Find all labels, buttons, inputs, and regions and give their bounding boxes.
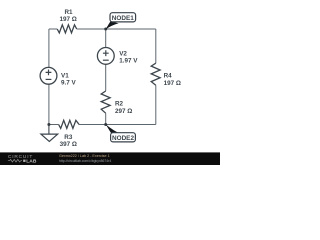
voltage source V1 — [40, 67, 76, 86]
node junction dot bottom-mid — [104, 123, 107, 126]
svg-text:NODE1: NODE1 — [112, 15, 134, 22]
wire: bottom rail from R3 to right vertical — [79, 124, 156, 126]
ground — [41, 125, 58, 142]
resistor R4 — [151, 63, 160, 85]
wire: V2/R2 branch vertical — [105, 29, 107, 91]
svg-text:V2: V2 — [119, 50, 127, 57]
svg-text:297 Ω: 297 Ω — [115, 108, 132, 115]
node junction dot bottom-left — [47, 123, 50, 126]
wire: bottom rail short lead junction to R3 — [49, 124, 59, 126]
svg-text:1.97 V: 1.97 V — [119, 58, 138, 65]
svg-text:197 Ω: 197 Ω — [60, 16, 77, 23]
svg-text:197 Ω: 197 Ω — [164, 80, 181, 87]
resistor R3 — [59, 120, 80, 128]
node NODE2 label — [111, 133, 136, 143]
wire: R2 bottom lead — [105, 113, 107, 124]
node NODE2 flag — [106, 124, 120, 133]
svg-text:LAB: LAB — [26, 158, 37, 164]
svg-text:R2: R2 — [115, 100, 124, 107]
svg-text:R3: R3 — [64, 134, 73, 141]
wire: right vertical upper lead to R4 — [155, 29, 157, 63]
svg-text:V1: V1 — [61, 72, 69, 79]
svg-text:http://circuitlab.com/c/bgkyx8: http://circuitlab.com/c/bgkyx8674r4 — [59, 159, 111, 163]
node NODE1 label — [110, 13, 136, 23]
wire: left vertical from top rail to ground junction — [48, 29, 50, 125]
wire: right vertical lower lead from R4 to bottom rail — [155, 85, 157, 124]
svg-text:Gexmx222 / Lab 2 - Exercise 1: Gexmx222 / Lab 2 - Exercise 1 — [59, 154, 110, 158]
footer bar — [0, 152, 220, 165]
resistor R2 — [101, 91, 110, 113]
wire: top rail mid from R1 to right corner — [77, 28, 156, 30]
svg-text:397 Ω: 397 Ω — [60, 141, 77, 148]
node NODE1 flag — [105, 22, 118, 30]
wire: top rail — [49, 28, 57, 30]
resistor R1 — [57, 25, 76, 33]
svg-text:9.7 V: 9.7 V — [61, 80, 77, 87]
svg-text:NODE2: NODE2 — [112, 135, 134, 142]
footer logo zigzag — [8, 159, 22, 162]
svg-text:R4: R4 — [164, 73, 173, 80]
voltage source V2 — [97, 48, 138, 65]
footer logo LAB — [23, 160, 25, 162]
node junction dot top — [104, 28, 107, 31]
